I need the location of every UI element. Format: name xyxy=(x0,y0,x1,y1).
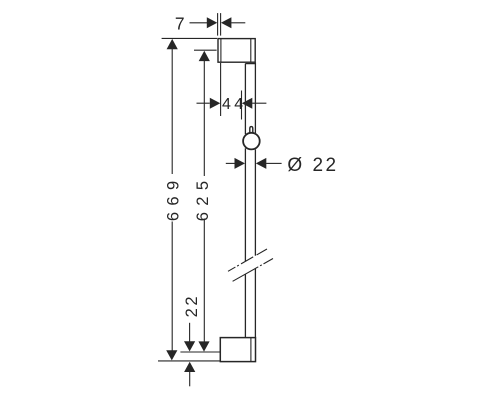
svg-text:Ø 22: Ø 22 xyxy=(287,155,338,176)
dim 22 leader line xyxy=(189,323,191,342)
extension line 669 bottom xyxy=(158,360,220,362)
svg-text:7: 7 xyxy=(175,14,185,34)
dim 44 line right segment xyxy=(252,102,266,104)
extension line 669 top xyxy=(162,37,217,39)
wall bracket cap top: outer rect xyxy=(218,39,255,63)
dim 44 arrow left (points right) xyxy=(210,98,221,109)
dim diameter 22 arrow left (points right) xyxy=(235,158,246,169)
cap bottom inner right line xyxy=(250,338,252,362)
dim 669 line upper xyxy=(171,49,173,174)
cap top inner right line xyxy=(250,39,252,63)
dim diameter 22 line right segment xyxy=(266,162,282,164)
svg-text:44: 44 xyxy=(222,96,247,113)
bar top edge xyxy=(245,63,255,65)
cap top inner left line xyxy=(220,39,222,63)
dim 22 lower tail line xyxy=(189,372,191,387)
slider circle xyxy=(243,133,260,150)
dim 669 line lower xyxy=(171,222,173,352)
bar right edge upper (to slider circle) xyxy=(254,63,256,134)
dim diameter 22 line left segment xyxy=(226,162,235,164)
svg-text:625: 625 xyxy=(194,175,212,222)
bar left edge upper (to slider circle) xyxy=(244,64,246,135)
bar left edge lower (break to bottom cap) xyxy=(244,274,246,337)
dim 669 arrow up xyxy=(167,39,178,49)
dim 625 line upper xyxy=(203,61,205,176)
break mark upper diagonal xyxy=(228,249,267,271)
dim 669 arrow down xyxy=(166,350,177,360)
dim 7 line right segment xyxy=(231,22,245,24)
break mark lower diagonal xyxy=(233,259,273,282)
dim 22 arrow down (outside, points to 625 end line) xyxy=(184,341,195,351)
dim 22 arrow up (outside, points to 669 end line) xyxy=(184,362,195,372)
dim 7 extension line left xyxy=(217,13,219,35)
dim 7 arrow left (points right) xyxy=(207,17,218,28)
dim 7 arrow right (points left) xyxy=(221,17,232,28)
dim 625 line lower xyxy=(203,219,205,343)
dim 625 arrow up xyxy=(199,51,210,61)
svg-text:22: 22 xyxy=(183,294,201,318)
dim 7 line left segment xyxy=(190,22,208,24)
svg-text:669: 669 xyxy=(165,174,183,221)
bar left edge mid (circle to break) xyxy=(244,148,246,261)
dim 7 extension line right xyxy=(220,13,222,35)
dim 44 arrow right (points left) xyxy=(242,98,253,109)
bar right edge mid (circle to break) xyxy=(254,150,256,256)
slider tab on top of circle xyxy=(250,127,253,134)
extension line 625 bottom xyxy=(180,351,220,353)
dim diameter 22 arrow right (points left) xyxy=(256,158,266,169)
dim 44 extension line right xyxy=(241,91,243,120)
end cap bottom: outer rect xyxy=(220,338,255,362)
dim 625 arrow down xyxy=(198,341,209,351)
dim 44 line left segment xyxy=(197,102,210,104)
extension line 625 top xyxy=(194,49,217,51)
bar right edge lower (break to bottom cap) xyxy=(254,268,256,337)
dim 44 extension line left xyxy=(220,63,222,116)
